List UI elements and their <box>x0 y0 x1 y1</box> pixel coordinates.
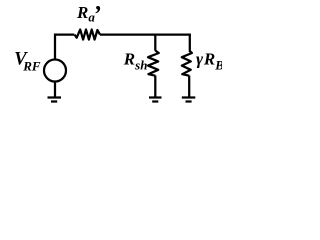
resistor gamma-R_B (shunt, vertical zigzag) <box>182 51 192 76</box>
resistor R_sh (shunt, vertical zigzag) <box>148 51 159 76</box>
voltage source V_RF (circle) <box>44 60 66 82</box>
ground (under R_sh) <box>149 98 162 102</box>
svg-text:γRB: γRB <box>196 50 222 73</box>
svg-text:’: ’ <box>93 2 101 28</box>
ground (under gamma-R_B) <box>182 98 196 102</box>
wire: R_sh bottom to ground <box>154 76 156 97</box>
wire: source bottom to ground <box>54 82 56 97</box>
wire: left vertical from source up and top horizontal to R_a' <box>55 35 74 59</box>
resistor R_a' (series, horizontal zigzag) <box>75 30 101 40</box>
node junction stub down to R_sh <box>154 34 156 51</box>
svg-text:VRF: VRF <box>14 50 41 74</box>
wire: top horizontal from R_a' to right corner <box>100 35 190 51</box>
wire: gamma-R_B bottom to ground <box>188 76 190 97</box>
svg-text:Rsh: Rsh <box>123 50 148 73</box>
ground (under source) <box>48 98 62 102</box>
